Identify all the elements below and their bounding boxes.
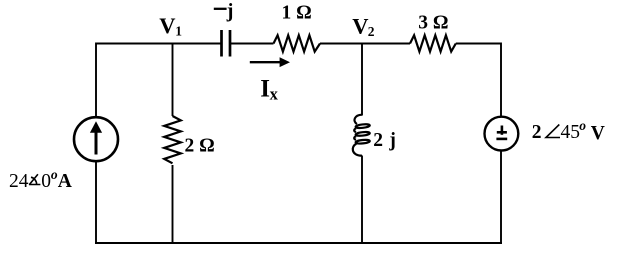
svg-text:2: 2	[368, 24, 375, 39]
resistor 2 ohm (vertical zigzag)	[164, 116, 181, 163]
resistor 3 ohm (horizontal zigzag)	[410, 35, 456, 51]
wire top-left segment (top-left corner to capacitor)	[96, 43, 221, 45]
svg-text:2 Ω: 2 Ω	[185, 136, 215, 157]
wire node V2 branch upper (top wire to inductor)	[361, 43, 363, 116]
svg-text:1 Ω: 1 Ω	[282, 3, 312, 24]
svg-text:I: I	[260, 76, 270, 103]
wire capacitor to 1-ohm resistor	[231, 43, 274, 45]
wire node V1 branch lower (2-ohm resistor to bottom wire)	[172, 165, 174, 243]
label 2 j (inductor value)	[373, 130, 396, 151]
wire right side above voltage source	[500, 43, 502, 117]
current source IS (circle with up arrow)	[74, 117, 118, 161]
node label V1	[159, 13, 182, 39]
resistor 1 ohm (horizontal zigzag)	[274, 35, 321, 51]
svg-text:V: V	[159, 13, 175, 38]
svg-text:o: o	[579, 118, 586, 133]
svg-text:x: x	[270, 84, 279, 103]
svg-text:45: 45	[561, 122, 581, 143]
wire left side below current source	[95, 162, 97, 244]
svg-text:24: 24	[9, 171, 29, 192]
svg-text:V: V	[352, 13, 368, 38]
capacitor -j (two plates)	[222, 30, 231, 57]
wire 1-ohm resistor to node V2 and on to 3-ohm resistor	[320, 43, 410, 45]
wire bottom	[95, 242, 502, 244]
wire node V2 branch lower (inductor to bottom wire)	[361, 156, 363, 244]
svg-text:j: j	[388, 130, 396, 151]
wire node V1 branch upper (top wire to 2-ohm resistor)	[172, 43, 174, 117]
wire 3-ohm resistor to top-right corner	[456, 43, 501, 45]
svg-text:2: 2	[373, 130, 383, 151]
svg-text:1: 1	[175, 23, 182, 38]
svg-text:V: V	[591, 123, 605, 144]
inductor 2j (coil)	[353, 115, 370, 156]
svg-text:2: 2	[532, 122, 542, 143]
current arrow Ix	[250, 57, 290, 67]
label -j (capacitor value)	[214, 0, 234, 22]
svg-text:j: j	[226, 0, 234, 22]
label 2 angle 45 deg V (voltage source value)	[532, 118, 605, 144]
node label V2	[352, 13, 375, 39]
voltage source VS (circle with plus-minus)	[485, 117, 519, 151]
wire right side below voltage source	[500, 151, 502, 243]
svg-text:0: 0	[41, 171, 51, 192]
svg-text:A: A	[58, 171, 72, 192]
svg-text:3 Ω: 3 Ω	[418, 13, 448, 34]
label 24 angle 0 deg A (current source value)	[9, 167, 72, 192]
label Ix	[260, 76, 278, 104]
wire left side above current source	[95, 43, 97, 118]
